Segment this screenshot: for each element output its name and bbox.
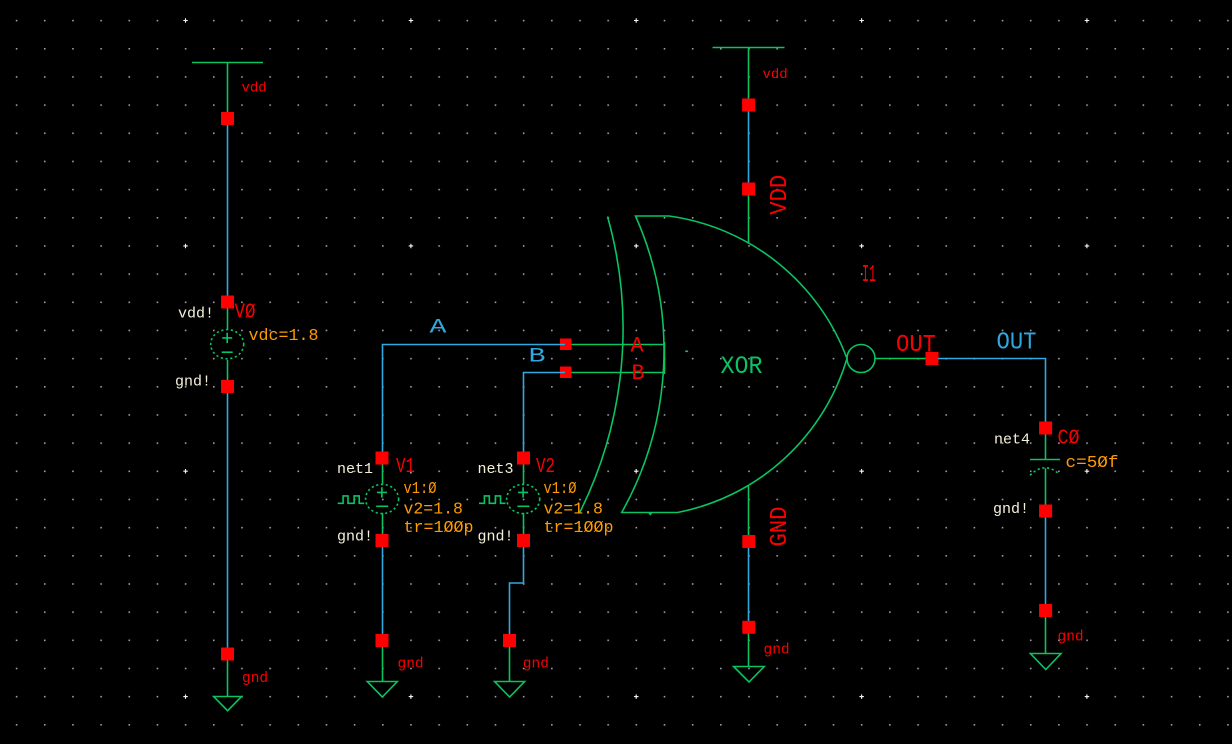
input chord segment <box>664 342 666 374</box>
svg-text:vdd: vdd <box>242 81 267 97</box>
stray tick <box>685 350 688 352</box>
wire vdd net (gate rail) <box>748 111 750 184</box>
svg-text:GND: GND <box>767 507 794 547</box>
lead net1-to-source <box>382 465 384 485</box>
plus sign V2 <box>518 487 528 497</box>
svg-text:v1:Ø: v1:Ø <box>404 479 437 498</box>
input stub B <box>571 372 665 374</box>
pin square gnd wire end (V2 branch) <box>503 634 516 647</box>
vdd symbol (gate rail) <box>713 48 785 100</box>
ground symbol (gate rail) <box>734 667 765 683</box>
ground symbol (V2 branch) <box>495 682 525 698</box>
wire lead source-to-gnd! <box>227 360 229 380</box>
minus sign V1 <box>376 505 388 507</box>
pulse waveform glyph V2 <box>479 496 506 503</box>
capacitor C0 top plate <box>1030 459 1060 461</box>
VDD pin stub of gate <box>748 195 750 244</box>
svg-text:gnd!: gnd! <box>337 528 373 545</box>
pin square vdd! (V0) <box>221 296 234 309</box>
pulse waveform glyph V1 <box>338 496 365 503</box>
pin square vdd top (gate rail) <box>742 99 755 112</box>
svg-text:V2: V2 <box>536 456 555 479</box>
xor gate body <box>622 216 847 513</box>
lead cap-to-gnd! <box>1045 468 1047 505</box>
pin square net3 <box>517 452 530 465</box>
vdd symbol (V0 branch) <box>192 63 263 113</box>
ground symbol (V0 branch) <box>214 697 242 711</box>
gnd lead (V0 branch) <box>227 660 229 697</box>
output bubble <box>847 345 875 373</box>
pin square net1 <box>376 452 389 465</box>
pin square net4 <box>1039 422 1052 435</box>
pin square gnd wire end (V0 branch) <box>221 648 234 661</box>
svg-text:v2=1.8: v2=1.8 <box>404 500 463 519</box>
svg-text:v2=1.8: v2=1.8 <box>544 500 603 519</box>
svg-text:net3: net3 <box>478 461 514 478</box>
svg-text:vdd!: vdd! <box>178 306 214 323</box>
xor outer input arc <box>580 217 624 514</box>
svg-text:vdd: vdd <box>763 67 788 83</box>
svg-text:CØ: CØ <box>1058 428 1080 451</box>
wire gnd net (V1 branch) <box>382 547 384 634</box>
lead source-to-gnd! (V2) <box>523 513 525 535</box>
wire gnd net (V0 branch) <box>227 392 229 648</box>
minus sign V2 <box>517 505 529 507</box>
svg-text:VØ: VØ <box>235 302 256 325</box>
gnd lead (gate rail) <box>748 634 750 667</box>
pin square input B <box>560 367 572 379</box>
svg-text:V1: V1 <box>396 456 415 479</box>
pin square GND of gate <box>742 535 755 548</box>
svg-text:net4: net4 <box>994 432 1030 449</box>
lead source-to-gnd! (V1) <box>382 513 384 535</box>
bottom edge notch <box>649 513 652 515</box>
svg-text:gnd: gnd <box>1058 630 1084 646</box>
wire vdd net (V0 branch) <box>227 124 229 297</box>
wire net A <box>383 345 566 453</box>
gnd lead (V1 branch) <box>382 647 384 682</box>
pin square gnd wire end (gate rail) <box>742 621 755 634</box>
svg-text:A: A <box>430 317 447 340</box>
svg-text:v1:Ø: v1:Ø <box>544 479 577 498</box>
svg-text:c=5Øf: c=5Øf <box>1066 453 1119 472</box>
svg-text:gnd: gnd <box>242 671 268 687</box>
svg-text:gnd: gnd <box>398 657 424 673</box>
wire net OUT <box>938 359 1046 423</box>
capacitor C0 bottom plate (arc) <box>1030 468 1059 475</box>
output stub <box>876 358 927 360</box>
ground symbol (V1 branch) <box>367 682 397 698</box>
pin square gnd! (V0) <box>221 380 234 393</box>
gnd lead (C0 branch) <box>1045 617 1047 654</box>
svg-text:tr=1ØØp: tr=1ØØp <box>404 518 474 537</box>
pin square gnd wire end (V1 branch) <box>376 634 389 647</box>
svg-text:gnd!: gnd! <box>993 501 1029 518</box>
pin square output <box>926 352 939 365</box>
wire gnd net (V2 branch, with jog) <box>510 547 524 634</box>
GND pin stub of gate <box>748 486 750 536</box>
svg-text:A: A <box>631 334 645 359</box>
svg-text:I1: I1 <box>862 262 876 289</box>
svg-text:OUT: OUT <box>896 332 936 359</box>
minus sign V0 <box>222 351 233 353</box>
pin square vdd top (V0 branch) <box>221 112 234 125</box>
svg-text:tr=1ØØp: tr=1ØØp <box>544 518 614 537</box>
svg-text:gnd!: gnd! <box>478 528 514 545</box>
wire gnd net (C0 branch) <box>1045 518 1047 605</box>
svg-text:gnd!: gnd! <box>175 373 211 390</box>
wire lead vdd!-to-source <box>227 308 229 330</box>
pin square gnd wire end (C0 branch) <box>1039 604 1052 617</box>
svg-text:B: B <box>529 346 546 369</box>
svg-text:gnd: gnd <box>764 643 790 659</box>
lead net3-to-source <box>523 465 525 485</box>
pin square gnd! (C0) <box>1039 505 1052 518</box>
plus sign V1 <box>377 487 387 497</box>
svg-text:VDD: VDD <box>767 175 794 215</box>
lead net4-to-cap <box>1045 435 1047 460</box>
plus sign V0 <box>222 333 232 343</box>
wire net B <box>524 373 566 453</box>
voltage source V0 circle <box>211 330 244 359</box>
pin square VDD of gate <box>742 183 755 196</box>
svg-text:net1: net1 <box>337 461 373 478</box>
svg-text:B: B <box>632 361 645 386</box>
svg-text:OUT: OUT <box>997 330 1037 357</box>
voltage source V1 circle <box>366 484 399 513</box>
voltage source V2 circle <box>507 484 540 513</box>
pin square input A <box>560 339 572 351</box>
pin square gnd! (V2) <box>517 534 530 547</box>
ground symbol (C0 branch) <box>1030 654 1061 670</box>
svg-text:gnd: gnd <box>523 657 549 673</box>
input stub A <box>571 344 665 346</box>
gnd lead (V2 branch) <box>509 647 511 682</box>
pin square gnd! (V1) <box>376 534 389 547</box>
wire gnd net (gate rail) <box>748 548 750 621</box>
svg-text:XOR: XOR <box>721 352 763 381</box>
coarse grid markers <box>183 18 1089 699</box>
svg-text:vdc=1.8: vdc=1.8 <box>249 326 319 345</box>
